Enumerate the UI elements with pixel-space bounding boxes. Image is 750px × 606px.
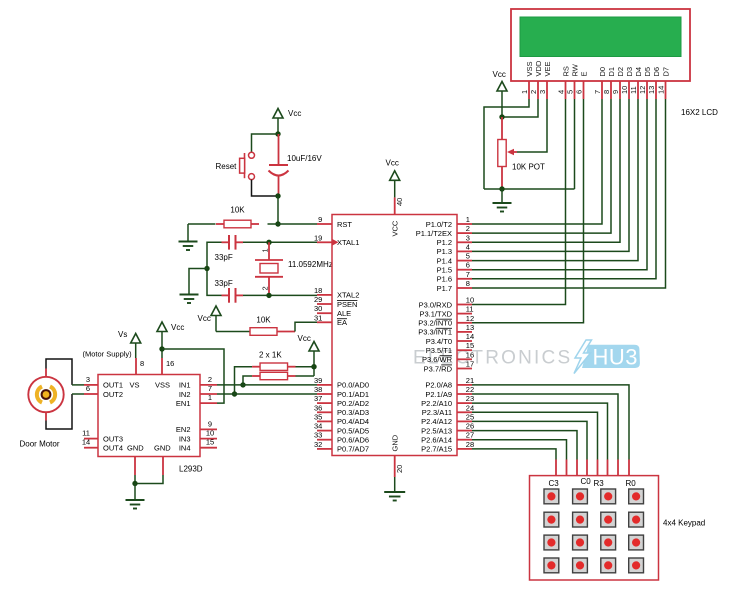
8051 pin number 24 xyxy=(466,403,474,412)
svg-text:PSEN: PSEN xyxy=(337,300,357,309)
8051 pin number 10 xyxy=(466,296,474,305)
svg-text:Reset: Reset xyxy=(216,162,238,171)
8051 pin number 1 xyxy=(466,215,470,224)
wire L293D grounds join xyxy=(135,475,163,484)
LCD green screen xyxy=(520,17,681,57)
resistor R1 10K xyxy=(188,220,278,228)
8051 pin number 40 xyxy=(395,198,404,206)
node VSS/EN1 junction xyxy=(159,346,164,351)
wire LCD pin5 RW to ground rail xyxy=(574,99,576,189)
svg-text:16: 16 xyxy=(166,359,174,368)
8051 pin label P2.3/A11 xyxy=(422,408,452,417)
LCD pin name D2 xyxy=(616,67,625,77)
L293D pin 15 stub (IN4) xyxy=(200,447,217,449)
potentiometer RV1 10K POT xyxy=(498,117,517,189)
8051 pin label P1.0/T2 xyxy=(426,220,452,229)
svg-text:12: 12 xyxy=(638,86,647,94)
ground symbol below pot xyxy=(493,203,512,212)
svg-text:13: 13 xyxy=(466,323,474,332)
LCD pin number 5 xyxy=(566,90,575,94)
8051 pin label P3.6/WR xyxy=(422,355,453,364)
svg-text:P2.1/A9: P2.1/A9 xyxy=(425,390,452,399)
L293D label EN1 xyxy=(176,399,191,408)
node cap bottom junction xyxy=(275,193,280,198)
svg-text:P3.3/INT1: P3.3/INT1 xyxy=(418,328,452,337)
LCD pin name VEE xyxy=(543,61,552,76)
svg-text:26: 26 xyxy=(466,422,474,431)
8051 pin label RST xyxy=(337,220,352,229)
8051 pin 3 stub (P1.2) xyxy=(457,241,472,243)
svg-text:23: 23 xyxy=(466,394,474,403)
L293D pin 16 stub (VSS) xyxy=(161,358,163,375)
keypad button row3 col1 xyxy=(544,535,559,550)
svg-text:Door Motor: Door Motor xyxy=(20,440,60,449)
LCD pin number 10 xyxy=(620,86,629,94)
svg-text:2 x 1K: 2 x 1K xyxy=(259,351,282,360)
8051 pin number 18 xyxy=(314,286,322,295)
svg-text:9: 9 xyxy=(318,215,322,224)
LCD pin number 4 xyxy=(557,90,566,94)
svg-text:33pF: 33pF xyxy=(215,279,233,288)
resistor R4 1K (bottom) xyxy=(252,372,295,379)
8051 pin label P0.3/AD3 xyxy=(337,408,369,417)
LCD pin name D4 xyxy=(634,67,643,77)
svg-text:D6: D6 xyxy=(652,67,661,77)
8051 pin label P3.7/RD xyxy=(424,364,453,373)
svg-text:22: 22 xyxy=(466,385,474,394)
svg-text:4: 4 xyxy=(557,90,566,94)
svg-text:HU3: HU3 xyxy=(593,345,639,370)
node 1K/Vcc junction xyxy=(311,364,316,369)
node RST junction xyxy=(275,221,280,226)
svg-text:P0.3/AD3: P0.3/AD3 xyxy=(337,408,369,417)
wire P2.7 to keypad column 7 xyxy=(472,449,556,476)
svg-text:P1.6: P1.6 xyxy=(437,275,452,284)
svg-text:RS: RS xyxy=(562,66,571,76)
L293D label OUT2 xyxy=(103,390,123,399)
Vs arrow symbol (motor supply) xyxy=(131,334,141,344)
svg-text:Vcc: Vcc xyxy=(171,323,184,332)
ground symbol below L293D xyxy=(126,500,145,509)
8051 pin label P1.4 xyxy=(437,256,452,265)
wire D4 (LCD pin11) to P1.4 xyxy=(472,99,638,261)
svg-text:P1.2: P1.2 xyxy=(437,238,452,247)
svg-text:R0: R0 xyxy=(626,479,637,488)
svg-text:C3: C3 xyxy=(549,479,560,488)
wire D0 (LCD pin7) to P1.0 xyxy=(472,99,602,224)
wire D6 (LCD pin13) to P1.6 xyxy=(472,99,656,279)
LCD pin name RS xyxy=(562,66,571,76)
svg-text:L293D: L293D xyxy=(179,465,203,474)
keypad button row4 col2 xyxy=(573,558,588,573)
L293D pin 1 stub (EN1) xyxy=(200,402,217,404)
svg-text:30: 30 xyxy=(314,304,322,313)
8051 pin label P1.1/T2EX xyxy=(416,229,452,238)
svg-text:P2.5/A13: P2.5/A13 xyxy=(421,426,452,435)
LCD pin number 3 xyxy=(538,90,547,94)
svg-text:P1.7: P1.7 xyxy=(437,284,452,293)
L293D pin number 3 xyxy=(86,375,90,384)
svg-text:7: 7 xyxy=(208,384,212,393)
8051 pin number 33 xyxy=(314,431,322,440)
svg-text:10: 10 xyxy=(620,86,629,94)
8051 pin number 21 xyxy=(466,376,474,385)
svg-text:1: 1 xyxy=(520,90,529,94)
svg-text:11: 11 xyxy=(629,86,638,94)
8051 pin 19 stub (XTAL1) xyxy=(317,241,332,243)
8051 pin label P0.7/AD7 xyxy=(337,445,369,454)
wire LCD pin1 VSS down-left to ground rail xyxy=(484,99,529,189)
svg-text:3: 3 xyxy=(86,375,90,384)
svg-text:OUT4: OUT4 xyxy=(103,444,123,453)
8051 pin 12 stub (P3.2/INT0) xyxy=(457,322,472,324)
8051 pin label P0.6/AD6 xyxy=(337,436,369,445)
svg-text:P0.0/AD0: P0.0/AD0 xyxy=(337,381,369,390)
wire ground rail under pot xyxy=(484,188,575,190)
wire IN1 to P0.0 xyxy=(217,384,317,386)
8051 pin 16 stub (P3.6/WR) xyxy=(457,358,472,360)
LCD pin 12 stub xyxy=(646,81,648,99)
label 10K (reset) xyxy=(230,206,245,215)
8051 pin label P3.2/INT0 xyxy=(418,319,452,328)
8051 pin 23 stub (P2.2/A10) xyxy=(457,402,472,404)
8051 pin label P2.7/A15 xyxy=(421,445,452,454)
8051 pin label P0.0/AD0 xyxy=(337,381,369,390)
wire LCD pin2 VDD to Vcc node xyxy=(502,99,538,117)
svg-text:27: 27 xyxy=(466,431,474,440)
8051 pin 5 stub (P1.4) xyxy=(457,260,472,262)
8051 pin 22 stub (P2.1/A9) xyxy=(457,393,472,395)
8051 pin label XTAL1 xyxy=(337,238,359,247)
Vcc arrow symbol at pot xyxy=(497,82,507,92)
Vcc label at reset xyxy=(288,109,301,118)
svg-text:P1.1/T2EX: P1.1/T2EX xyxy=(416,229,452,238)
8051 pin number 36 xyxy=(314,403,322,412)
LCD pin name VDD xyxy=(534,60,543,76)
8051 pin number 6 xyxy=(466,261,470,270)
keypad body 4x4 xyxy=(530,476,659,580)
8051 pin number 11 xyxy=(466,305,474,314)
8051 pin 7 stub (P1.6) xyxy=(457,278,472,280)
svg-text:25: 25 xyxy=(466,412,474,421)
svg-text:D4: D4 xyxy=(634,67,643,77)
wire top 1K left to P0.1 row xyxy=(235,367,253,394)
label 11.0592MHz xyxy=(288,260,333,269)
8051 pin 24 stub (P2.3/A11) xyxy=(457,411,472,413)
svg-text:P3.6/WR: P3.6/WR xyxy=(422,355,453,364)
LCD pin name E xyxy=(580,71,589,76)
keypad button row3 col3 xyxy=(601,535,616,550)
LCD pin name VSS xyxy=(525,61,534,76)
8051 pin label P3.1/TXD xyxy=(419,309,452,318)
wire caps midpoint to ground xyxy=(189,269,207,295)
8051 pin number 19 xyxy=(314,233,322,242)
8051 pin 20 stub (GND) xyxy=(394,456,396,478)
wire P2.3 to keypad column 3 xyxy=(472,412,598,475)
8051 pin label P2.2/A10 xyxy=(421,399,452,408)
label L293D xyxy=(179,465,203,474)
svg-text:P1.5: P1.5 xyxy=(437,266,452,275)
wire XTAL2 row xyxy=(243,294,317,296)
microcontroller U1 8051 body fill xyxy=(332,215,457,456)
node XTAL2 junction xyxy=(266,293,271,298)
svg-text:7: 7 xyxy=(466,270,470,279)
8051 pin number 39 xyxy=(314,376,322,385)
svg-text:OUT2: OUT2 xyxy=(103,390,123,399)
L293D bottom GND stub right xyxy=(162,457,164,476)
wire Vcc to pot top xyxy=(501,91,503,117)
wire reset branch bottom xyxy=(252,180,279,196)
svg-text:P0.6/AD6: P0.6/AD6 xyxy=(337,436,369,445)
LCD pin name D0 xyxy=(598,67,607,77)
L293D label EN2 xyxy=(176,425,191,434)
svg-text:D3: D3 xyxy=(625,67,634,77)
8051 pin 34 stub (P0.5/AD5) xyxy=(317,430,332,432)
L293D label GND right xyxy=(154,444,171,453)
keypad button row2 col3 xyxy=(601,512,616,527)
wire P2.5 to keypad column 5 xyxy=(472,431,577,476)
8051 pin 32 stub (P0.7/AD7) xyxy=(317,448,332,450)
watermark HUB badge xyxy=(582,345,640,370)
svg-text:D7: D7 xyxy=(662,67,671,77)
label 2 x 1K xyxy=(259,351,282,360)
wire Vs to pin 8 xyxy=(135,343,137,358)
svg-text:28: 28 xyxy=(466,440,474,449)
8051 pin 14 stub (P3.4/T0) xyxy=(457,340,472,342)
svg-text:11.0592MHz: 11.0592MHz xyxy=(288,260,333,269)
node XTAL1 junction xyxy=(266,240,271,245)
L293D pin 9 stub (EN2) xyxy=(200,428,217,430)
L293D pin number 10 xyxy=(206,429,214,438)
L293D pin number 14 xyxy=(82,438,90,447)
wire EA resistor to EA pin xyxy=(295,322,317,331)
wire E (LCD pin6) to P3.2 xyxy=(472,99,584,323)
keypad button row4 col4 xyxy=(629,558,644,573)
svg-text:2: 2 xyxy=(529,90,538,94)
svg-text:VSS: VSS xyxy=(155,381,170,390)
svg-text:21: 21 xyxy=(466,376,474,385)
watermark lightning bolt xyxy=(574,340,592,374)
L293D label IN4 xyxy=(179,444,191,453)
8051 pin label P0.5/AD5 xyxy=(337,426,369,435)
svg-text:OUT1: OUT1 xyxy=(103,381,123,390)
svg-text:P3.2/INT0: P3.2/INT0 xyxy=(418,319,452,328)
8051 pin 36 stub (P0.3/AD3) xyxy=(317,411,332,413)
svg-text:C0: C0 xyxy=(581,477,592,486)
wire P2.4 to keypad column 4 xyxy=(472,421,587,475)
8051 pin label P0.4/AD4 xyxy=(337,417,369,426)
8051 pin label P3.5/T1 xyxy=(426,346,452,355)
svg-text:39: 39 xyxy=(314,376,322,385)
svg-text:RST: RST xyxy=(337,220,352,229)
svg-text:IN3: IN3 xyxy=(179,434,191,443)
8051 pin number 27 xyxy=(466,431,474,440)
8051 pin 33 stub (P0.6/AD6) xyxy=(317,439,332,441)
LCD pin name D5 xyxy=(643,67,652,77)
svg-text:35: 35 xyxy=(314,412,322,421)
svg-text:8: 8 xyxy=(602,90,611,94)
wire 10K to ground xyxy=(187,224,189,242)
8051 pin number 7 xyxy=(466,270,470,279)
svg-text:10uF/16V: 10uF/16V xyxy=(287,154,322,163)
svg-text:D2: D2 xyxy=(616,67,625,77)
keypad button row1 col3 xyxy=(601,489,616,504)
svg-text:24: 24 xyxy=(466,403,474,412)
svg-text:1: 1 xyxy=(261,248,270,252)
LCD pin name D6 xyxy=(652,67,661,77)
svg-text:VS: VS xyxy=(130,381,140,390)
8051 pin 18 stub (XTAL2) xyxy=(317,294,332,296)
svg-text:10K POT: 10K POT xyxy=(512,163,545,172)
svg-text:OUT3: OUT3 xyxy=(103,434,123,443)
svg-text:P0.5/AD5: P0.5/AD5 xyxy=(337,426,369,435)
svg-text:VEE: VEE xyxy=(543,61,552,76)
wire motor bottom to OUT2 xyxy=(46,394,84,429)
svg-text:36: 36 xyxy=(314,403,322,412)
LCD pin 4 stub xyxy=(565,81,567,99)
svg-text:P0.1/AD1: P0.1/AD1 xyxy=(337,390,369,399)
8051 pin number 4 xyxy=(466,242,470,251)
L293D pin number 6 xyxy=(86,384,90,393)
8051 pin 37 stub (P0.2/AD2) xyxy=(317,402,332,404)
svg-text:P3.5/T1: P3.5/T1 xyxy=(426,346,452,355)
8051 pin label P2.4/A12 xyxy=(421,417,452,426)
svg-text:4: 4 xyxy=(466,242,470,251)
keypad label C3 xyxy=(549,479,560,488)
L293D label VSS xyxy=(155,381,170,390)
crystal X1 11.0592MHz xyxy=(255,242,283,295)
svg-text:IN1: IN1 xyxy=(179,381,191,390)
svg-text:33: 33 xyxy=(314,431,322,440)
Vcc arrow symbol at EA resistor xyxy=(211,306,221,316)
wire P2.1 to keypad column 1 xyxy=(472,394,618,476)
svg-text:29: 29 xyxy=(314,295,322,304)
Vcc arrow symbol above 8051 xyxy=(390,171,400,181)
svg-text:IN4: IN4 xyxy=(179,444,191,453)
svg-text:33pF: 33pF xyxy=(215,253,233,262)
LCD pin 14 stub xyxy=(665,81,667,99)
node pot bottom junction xyxy=(499,186,504,191)
keypad button row2 col1 xyxy=(544,512,559,527)
8051 pin label P3.0/RXD xyxy=(419,300,453,309)
motor bottom lead xyxy=(45,412,47,420)
svg-text:Vcc: Vcc xyxy=(198,314,211,323)
L293D pin number 8 xyxy=(140,359,144,368)
LCD pin number 12 xyxy=(638,86,647,94)
Vcc arrow symbol at L293D xyxy=(157,322,167,332)
L293D label OUT1 xyxy=(103,381,123,390)
8051 pin number 8 xyxy=(466,279,470,288)
svg-text:9: 9 xyxy=(611,90,620,94)
wire L293D ground down xyxy=(134,484,136,501)
8051 pin 28 stub (P2.7/A15) xyxy=(457,448,472,450)
Vcc label at EA resistor xyxy=(198,314,211,323)
L293D pin 3 stub (OUT1) xyxy=(84,384,98,386)
8051 pin label P0.1/AD1 xyxy=(337,390,369,399)
Vcc arrow symbol at 1K resistors xyxy=(309,342,319,352)
svg-text:34: 34 xyxy=(314,422,322,431)
svg-text:16X2 LCD: 16X2 LCD xyxy=(681,108,718,117)
svg-text:Vcc: Vcc xyxy=(298,334,311,343)
L293D label GND left xyxy=(127,444,144,453)
crystal pin number 2 xyxy=(261,286,270,290)
svg-text:20: 20 xyxy=(395,465,404,473)
L293D pin 10 stub (IN3) xyxy=(200,438,217,440)
keypad button row2 col4 xyxy=(629,512,644,527)
8051 pin 38 stub (P0.1/AD1) xyxy=(317,393,332,395)
svg-text:10: 10 xyxy=(206,429,214,438)
8051 pin label P1.7 xyxy=(437,284,452,293)
8051 pin 10 stub (P3.0/RXD) xyxy=(457,304,472,306)
svg-text:7: 7 xyxy=(593,90,602,94)
svg-text:4x4 Keypad: 4x4 Keypad xyxy=(663,519,705,528)
svg-text:19: 19 xyxy=(314,233,322,242)
ground symbol at 10K xyxy=(179,242,198,251)
LCD pin number 14 xyxy=(657,86,666,94)
svg-text:12: 12 xyxy=(466,314,474,323)
wire bottom 1K right to Vcc line xyxy=(296,375,315,377)
8051 pin label P3.3/INT1 xyxy=(418,328,452,337)
svg-text:P1.4: P1.4 xyxy=(437,256,452,265)
svg-text:P2.2/A10: P2.2/A10 xyxy=(421,399,452,408)
wire Vcc down right of 1K resistors xyxy=(313,351,315,376)
svg-text:31: 31 xyxy=(314,313,322,322)
8051 pin label PSEN xyxy=(337,300,357,309)
svg-text:P0.7/AD7: P0.7/AD7 xyxy=(337,445,369,454)
8051 GND label (rotated) xyxy=(390,434,399,451)
8051 pin label XTAL2 xyxy=(337,291,359,300)
node P0.1 junction xyxy=(232,391,237,396)
8051 pin 25 stub (P2.4/A12) xyxy=(457,420,472,422)
label 10K POT xyxy=(512,163,545,172)
LCD pin 10 stub xyxy=(628,81,630,99)
svg-text:10K: 10K xyxy=(256,316,271,325)
8051 pin number 22 xyxy=(466,385,474,394)
8051 pin number 32 xyxy=(314,440,322,449)
8051 pin 35 stub (P0.4/AD4) xyxy=(317,420,332,422)
wire pot bottom to ground xyxy=(501,189,503,203)
8051 pin number 35 xyxy=(314,412,322,421)
wire P2.6 to keypad column 6 xyxy=(472,440,567,476)
label 4x4 Keypad xyxy=(663,519,705,528)
L293D pin number 11 xyxy=(82,429,90,438)
8051 pin label P3.4/T0 xyxy=(426,337,452,346)
svg-text:P2.4/A12: P2.4/A12 xyxy=(421,417,452,426)
8051 pin 13 stub (P3.3/INT1) xyxy=(457,331,472,333)
wire D2 (LCD pin9) to P1.2 xyxy=(472,99,620,242)
8051 pin 15 stub (P3.5/T1) xyxy=(457,349,472,351)
svg-text:P0.2/AD2: P0.2/AD2 xyxy=(337,399,369,408)
L293D pin 14 stub (OUT4) xyxy=(84,447,98,449)
crystal pin number 1 xyxy=(261,248,270,252)
svg-text:14: 14 xyxy=(466,332,474,341)
8051 pin number 26 xyxy=(466,422,474,431)
8051 pin number 38 xyxy=(314,385,322,394)
Vs label xyxy=(118,330,127,339)
svg-text:R3: R3 xyxy=(594,479,605,488)
svg-text:2: 2 xyxy=(208,375,212,384)
keypad button row4 col1 xyxy=(544,558,559,573)
svg-text:P3.0/RXD: P3.0/RXD xyxy=(419,300,453,309)
svg-text:2: 2 xyxy=(466,224,470,233)
svg-text:38: 38 xyxy=(314,385,322,394)
LCD pin number 7 xyxy=(593,90,602,94)
svg-text:11: 11 xyxy=(466,305,474,314)
svg-text:VCC: VCC xyxy=(390,220,399,236)
LCD module LCD1 body xyxy=(511,9,690,81)
8051 pin number 16 xyxy=(466,350,474,359)
wire reset branch top xyxy=(252,134,279,152)
